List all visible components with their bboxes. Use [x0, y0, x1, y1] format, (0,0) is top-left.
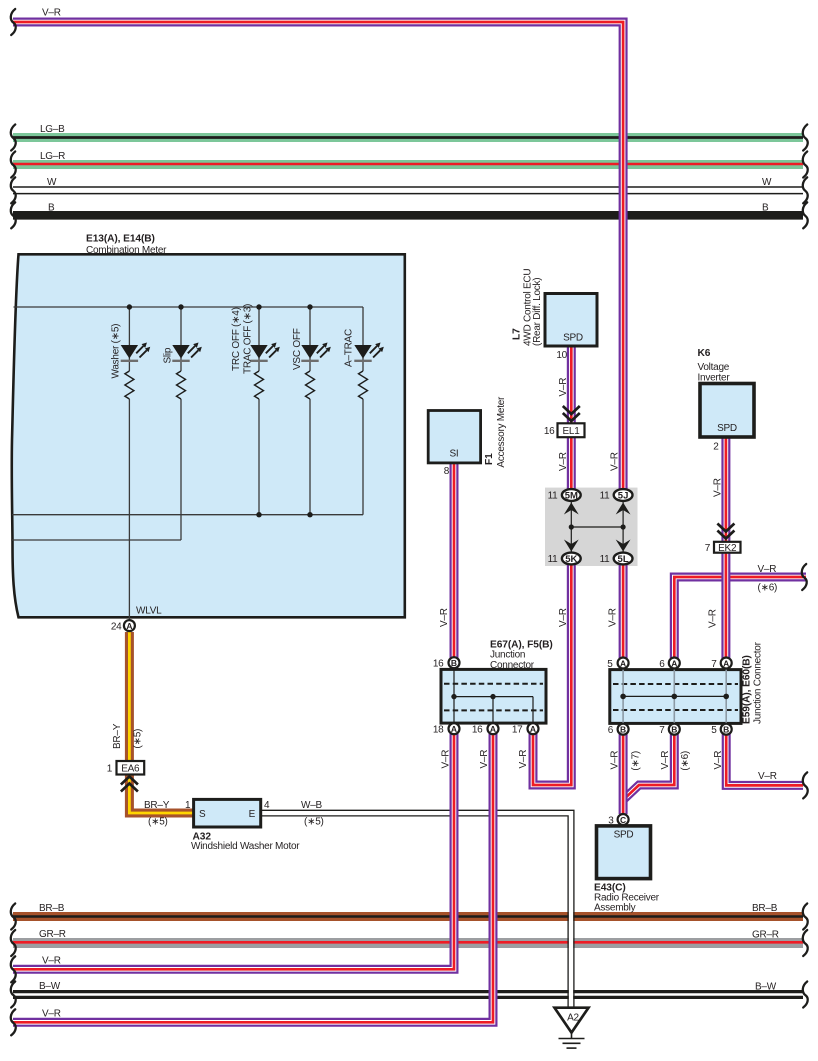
- svg-text:V–R: V–R: [608, 608, 619, 627]
- svg-text:Washer (∗5): Washer (∗5): [111, 324, 122, 379]
- svg-text:V–R: V–R: [660, 751, 671, 770]
- break left B: [11, 202, 16, 228]
- svg-text:16: 16: [544, 426, 555, 437]
- E59 dashed rows: [613, 683, 738, 685]
- break left V-R row3: [11, 956, 16, 982]
- svg-text:A2: A2: [567, 1013, 579, 1024]
- svg-text:Assembly: Assembly: [594, 903, 636, 914]
- windshield washer motor A32 box: [191, 799, 300, 852]
- svg-text:W–B: W–B: [301, 800, 323, 811]
- connector EL1 pin 16: [544, 423, 585, 437]
- break right LG-B: [803, 125, 808, 151]
- wire W-B from A32 to ground A2: [261, 810, 574, 1007]
- internal lines of junction block: [571, 501, 623, 552]
- connector EK2 pin 7: [705, 542, 741, 554]
- svg-text:SPD: SPD: [614, 830, 634, 841]
- svg-text:BR–B: BR–B: [39, 903, 65, 914]
- svg-text:V–R: V–R: [713, 478, 724, 497]
- svg-text:Junction Connector: Junction Connector: [753, 641, 764, 724]
- svg-text:B: B: [620, 725, 626, 735]
- svg-text:B: B: [671, 725, 677, 735]
- svg-text:A: A: [671, 658, 677, 668]
- svg-text:11: 11: [548, 491, 559, 502]
- oval connector 5L: [600, 553, 633, 565]
- break right V-R (*6): [802, 564, 807, 590]
- svg-text:(∗5): (∗5): [304, 817, 324, 828]
- E67 dashed rows: [444, 683, 543, 685]
- meter lower rail 1: [12, 514, 363, 516]
- branch verticals: [129, 307, 363, 619]
- arrow up to 5J: [616, 503, 631, 515]
- svg-text:6: 6: [608, 725, 614, 736]
- LED VSC OFF: [301, 342, 331, 360]
- wire V-R from 5K down, left, up to E67 pin 17(A): [533, 559, 571, 786]
- svg-text:10: 10: [556, 350, 567, 361]
- svg-text:2: 2: [713, 442, 719, 453]
- break left V-R row5: [11, 1009, 16, 1035]
- break left LG-B: [11, 125, 16, 151]
- wire V-R from E59 6(B) down to E43 pin 3(C): [619, 731, 628, 814]
- svg-text:K6: K6: [698, 348, 711, 359]
- wire V-R from K6 pin 2 through EK2 to E59 pin 7(A): [721, 437, 730, 660]
- break left LG-R: [11, 152, 16, 178]
- svg-text:7: 7: [705, 543, 711, 554]
- svg-text:SI: SI: [450, 449, 459, 460]
- svg-text:GR–R: GR–R: [752, 930, 779, 941]
- break left GR-R: [11, 930, 16, 956]
- svg-text:(∗7): (∗7): [631, 751, 642, 771]
- pin 3(C) of E43: [608, 814, 628, 826]
- junction dots on rails: [127, 304, 313, 517]
- E67 pin 16(B) top: [433, 657, 460, 669]
- svg-text:A–TRAC: A–TRAC: [344, 329, 355, 367]
- accessory meter F1 (SI box): [428, 396, 507, 627]
- svg-text:B: B: [48, 203, 55, 214]
- resistor TRC OFF: [255, 371, 264, 399]
- break left W: [11, 177, 16, 203]
- svg-text:B: B: [723, 725, 729, 735]
- svg-text:BR–Y: BR–Y: [112, 723, 123, 749]
- svg-text:LG–R: LG–R: [40, 151, 65, 162]
- E59 pin 7(B) bottom: [659, 724, 680, 736]
- svg-text:8: 8: [444, 466, 450, 477]
- svg-text:V–R: V–R: [708, 609, 719, 628]
- oval connector 5K: [548, 553, 581, 565]
- svg-text:7: 7: [711, 659, 717, 670]
- svg-text:EK2: EK2: [718, 543, 737, 554]
- svg-text:A: A: [620, 658, 626, 668]
- svg-text:5L: 5L: [618, 554, 629, 565]
- E59 pin 7(A) top: [711, 658, 732, 670]
- svg-text:17: 17: [512, 725, 523, 736]
- svg-text:C: C: [620, 815, 626, 825]
- svg-text:V–R: V–R: [441, 750, 452, 769]
- svg-text:A: A: [451, 724, 457, 734]
- node dots in junction block: [569, 524, 574, 529]
- E67 pin 16(A) bottom: [472, 723, 499, 735]
- radio receiver assembly E43 box: [594, 826, 660, 914]
- oval connector 5J: [600, 489, 633, 501]
- svg-text:A: A: [530, 724, 536, 734]
- svg-text:V–R: V–R: [713, 751, 724, 770]
- svg-text:V–R: V–R: [439, 608, 450, 627]
- double chevron arrow above EL1: [563, 406, 580, 421]
- E67 internal wiring: [454, 669, 533, 723]
- svg-text:V–R: V–R: [42, 8, 61, 19]
- svg-text:24: 24: [111, 622, 122, 633]
- svg-text:Junction: Junction: [490, 650, 525, 661]
- branch Washer: [128, 307, 130, 371]
- break right BR-B: [803, 904, 808, 930]
- 4WD control ECU L7 (SPD box): [512, 269, 598, 361]
- svg-text:L7: L7: [512, 328, 523, 340]
- svg-text:Voltage: Voltage: [698, 362, 730, 373]
- svg-text:(∗6): (∗6): [680, 751, 691, 771]
- svg-text:Combination Meter: Combination Meter: [86, 245, 167, 256]
- E59 pin 6(A) top: [659, 658, 680, 670]
- svg-text:Accessory Meter: Accessory Meter: [496, 396, 507, 468]
- svg-text:(∗6): (∗6): [758, 583, 778, 594]
- svg-text:E: E: [249, 809, 256, 820]
- break left BR-B: [11, 904, 16, 930]
- bus B-W: [13, 981, 803, 995]
- break right V-R 5(B): [803, 772, 808, 798]
- break right GR-R: [803, 930, 808, 956]
- wire V-R from 5L down to E59 pin 5(A) handled above; segment 5L to 5(A): [619, 559, 628, 664]
- svg-text:LG–B: LG–B: [40, 124, 65, 135]
- svg-text:(∗5): (∗5): [148, 817, 168, 828]
- svg-text:V–R: V–R: [518, 750, 529, 769]
- svg-text:WLVL: WLVL: [136, 606, 162, 617]
- E67 pin 17(A) bottom: [512, 723, 539, 735]
- break right W: [803, 177, 808, 203]
- branch Slip: [180, 307, 182, 371]
- branch VSC OFF: [309, 307, 311, 371]
- svg-text:16: 16: [472, 725, 483, 736]
- svg-text:Slip: Slip: [163, 347, 174, 363]
- svg-text:GR–R: GR–R: [39, 929, 66, 940]
- svg-text:E13(A), E14(B): E13(A), E14(B): [86, 234, 155, 245]
- double chevron arrow above EK2: [717, 524, 734, 539]
- LED Washer: [121, 342, 151, 360]
- E59 internal columns: [623, 670, 726, 724]
- E59 internal bus: [623, 695, 726, 697]
- svg-text:V–R: V–R: [558, 608, 569, 627]
- svg-text:V–R: V–R: [558, 378, 569, 397]
- svg-text:A: A: [723, 658, 729, 668]
- resistor Slip: [177, 371, 186, 399]
- svg-text:A: A: [490, 724, 496, 734]
- svg-text:TRAC OFF (∗3): TRAC OFF (∗3): [243, 304, 254, 374]
- LED A-TRAC: [354, 342, 384, 360]
- svg-text:11: 11: [600, 491, 611, 502]
- wire V-R (*6) horizontal from right break down to E59 pin 6(A): [674, 564, 806, 660]
- svg-text:5: 5: [711, 725, 717, 736]
- wire V-R from E59 5(B) down and right to break: [726, 731, 803, 785]
- svg-text:V–R: V–R: [558, 452, 569, 471]
- arrow down to 5L: [616, 540, 631, 552]
- resistor Washer: [125, 371, 134, 399]
- double chevron arrow up to EA6: [121, 777, 138, 792]
- svg-text:A: A: [126, 621, 132, 631]
- svg-text:6: 6: [659, 659, 665, 670]
- wire V-R from E59 7(B) merging to 6(B) wire: [623, 731, 674, 800]
- meter top rail: [14, 306, 364, 308]
- wire V-R from E67 16(A) down to left break (bus row 5): [13, 731, 493, 1022]
- svg-text:SPD: SPD: [717, 423, 737, 434]
- LED Slip: [172, 342, 202, 360]
- svg-text:BR–Y: BR–Y: [144, 800, 170, 811]
- svg-text:1: 1: [107, 764, 113, 775]
- arrow down to 5K: [564, 540, 579, 552]
- svg-text:11: 11: [548, 554, 559, 565]
- svg-text:SPD: SPD: [563, 333, 583, 344]
- svg-text:V–R: V–R: [758, 771, 777, 782]
- break right B: [803, 202, 808, 228]
- bus LG-R: [13, 151, 803, 165]
- bus W: [13, 177, 803, 194]
- svg-text:V–R: V–R: [610, 751, 621, 770]
- junction block (gray): [545, 488, 638, 566]
- wire V-R top feed: left break to corner, down to E59 pin 5(A): [13, 8, 623, 498]
- svg-text:EA6: EA6: [121, 764, 140, 775]
- svg-text:Connector: Connector: [490, 660, 535, 671]
- pin 24(A) of meter: [111, 620, 135, 632]
- svg-text:4: 4: [264, 800, 270, 811]
- svg-text:5J: 5J: [618, 490, 629, 501]
- bus LG-B: [13, 124, 803, 138]
- arrow up to 5M: [564, 503, 579, 515]
- resistor A-TRAC: [359, 371, 368, 399]
- wire V-R from SI pin 8 to E67 pin 16(B): [450, 462, 459, 660]
- svg-text:E59(A), E60(B): E59(A), E60(B): [742, 655, 753, 724]
- branch TRC OFF: [258, 307, 260, 371]
- svg-text:1: 1: [185, 800, 191, 811]
- svg-text:(∗5): (∗5): [133, 729, 144, 749]
- svg-text:B: B: [762, 203, 769, 214]
- svg-text:BR–B: BR–B: [752, 903, 778, 914]
- svg-text:(Rear Diff. Lock): (Rear Diff. Lock): [532, 278, 543, 346]
- svg-text:B–W: B–W: [39, 981, 61, 992]
- bus B: [13, 203, 803, 216]
- wire V-R from E67 18(A) down to left break (bus row 3): [13, 731, 454, 969]
- junction connector E67 box: [441, 640, 553, 724]
- LED TRC OFF: [250, 342, 280, 360]
- svg-text:EL1: EL1: [562, 426, 580, 437]
- svg-text:5M: 5M: [565, 490, 578, 501]
- oval connector 5M: [548, 489, 581, 501]
- meter lower rail 2: [11, 539, 181, 541]
- svg-text:F1: F1: [484, 453, 495, 465]
- E59 pin 5(A) top: [607, 658, 628, 670]
- break left V-R top: [11, 9, 16, 35]
- break left B-W: [11, 982, 16, 1008]
- junction connector E59 box: [610, 641, 764, 724]
- svg-text:Inverter: Inverter: [698, 373, 731, 384]
- svg-text:5: 5: [607, 659, 613, 670]
- svg-text:11: 11: [600, 554, 611, 565]
- svg-text:B–W: B–W: [755, 982, 777, 993]
- svg-text:18: 18: [433, 725, 444, 736]
- branch A-TRAC: [362, 307, 364, 371]
- E59 pin 6(B) bottom: [608, 724, 629, 736]
- wire V-R from L7 SPD pin 10 through EL1 to 5M: [567, 346, 576, 495]
- wire BR-Y from meter pin 24(A) through EA6 to A32 pin 1: [129, 632, 193, 813]
- bus BR-B: [13, 903, 803, 917]
- voltage inverter K6 (SPD box): [698, 348, 755, 497]
- break right LG-R: [803, 152, 808, 178]
- svg-text:Windshield Washer Motor: Windshield Washer Motor: [191, 841, 300, 852]
- svg-text:B: B: [451, 658, 457, 668]
- svg-text:7: 7: [659, 725, 665, 736]
- E59 pin 5(B) bottom: [711, 724, 732, 736]
- svg-text:S: S: [199, 809, 206, 820]
- combination meter box E13/E14: [12, 234, 405, 618]
- svg-text:W: W: [762, 177, 772, 188]
- E67 pin 18(A) bottom: [433, 723, 460, 735]
- svg-text:V–R: V–R: [479, 750, 490, 769]
- svg-text:5K: 5K: [565, 554, 577, 565]
- svg-text:V–R: V–R: [610, 452, 621, 471]
- resistor VSC OFF: [306, 371, 315, 399]
- connector EA6 pin 1: [107, 761, 145, 775]
- svg-text:TRC OFF (∗4): TRC OFF (∗4): [231, 307, 242, 371]
- svg-text:16: 16: [433, 659, 444, 670]
- svg-text:VSC OFF: VSC OFF: [292, 328, 303, 370]
- break right B-W: [803, 982, 808, 1008]
- svg-text:W: W: [47, 177, 57, 188]
- bus GR-R: [13, 929, 803, 943]
- svg-text:V–R: V–R: [758, 564, 777, 575]
